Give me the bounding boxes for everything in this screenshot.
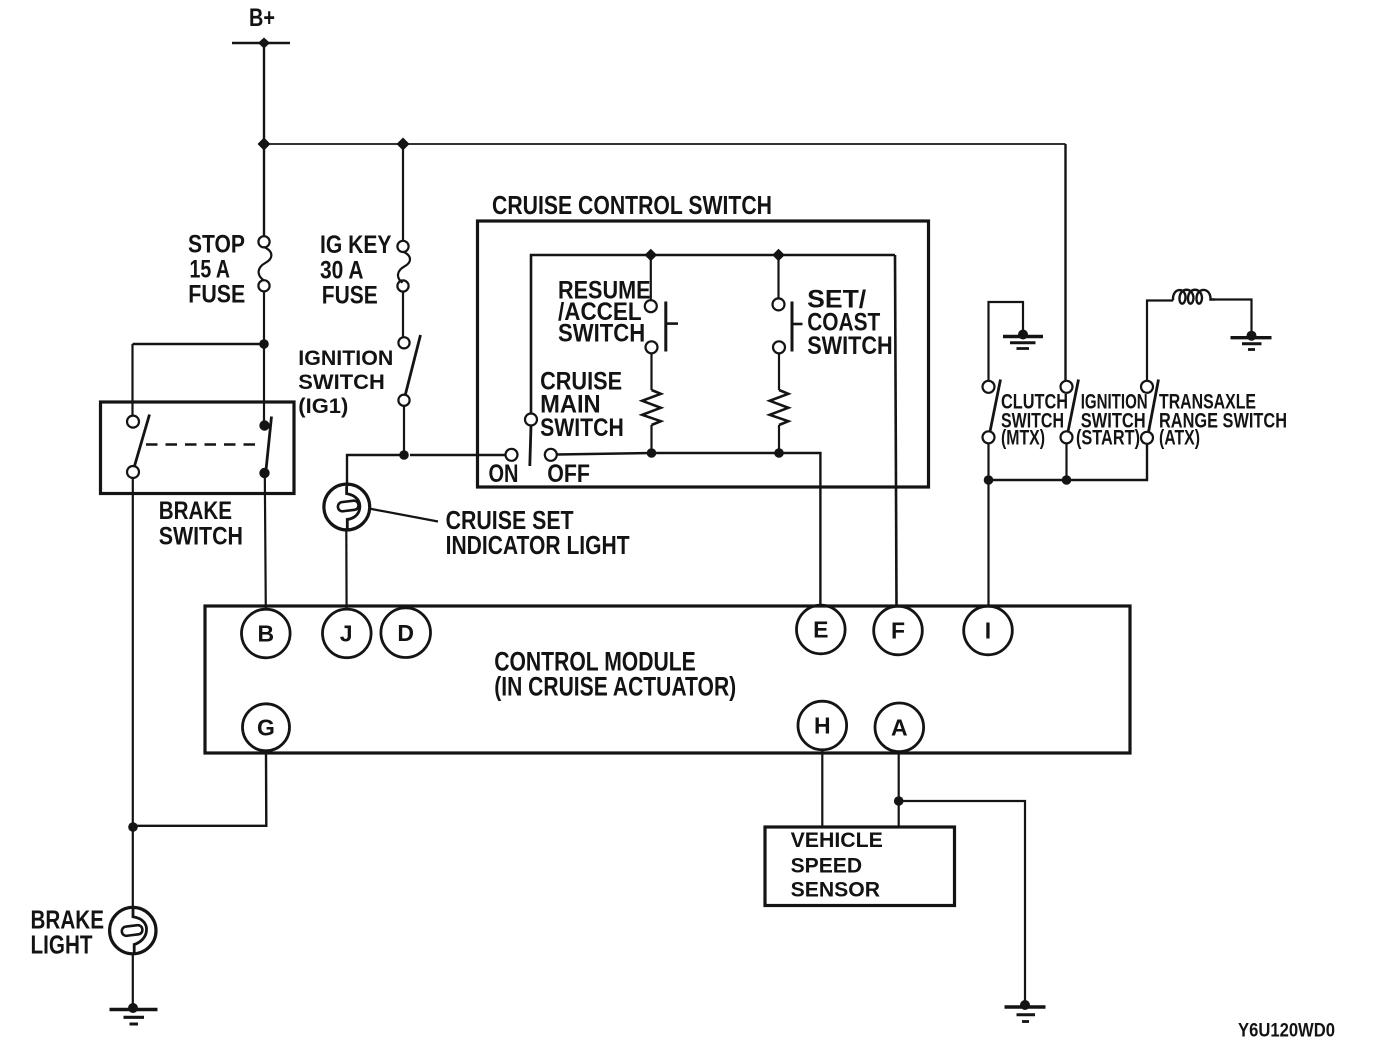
- leader line lamp to label: [369, 509, 438, 522]
- cruise main switch label: [540, 368, 624, 442]
- svg-text:E: E: [813, 617, 828, 643]
- wire pin A junction right and down to ground: [899, 801, 1025, 1004]
- svg-text:INDICATOR LIGHT: INDICATOR LIGHT: [446, 530, 630, 560]
- svg-text:ON: ON: [489, 460, 519, 488]
- node junction at (650.8,255): [645, 249, 658, 262]
- svg-text:H: H: [814, 713, 831, 739]
- vehicle speed sensor label: [791, 827, 883, 902]
- svg-text:IG KEY: IG KEY: [320, 232, 392, 259]
- svg-text:BRAKE: BRAKE: [159, 498, 232, 525]
- wire top bus down to ignition switch START: [1064, 144, 1066, 381]
- wire coil to ground: [1215, 300, 1252, 334]
- wire junction left to brake switch input: [133, 343, 265, 345]
- svg-text:15 A: 15 A: [190, 257, 231, 284]
- wire lamp to ground: [132, 954, 134, 1008]
- wire resistor to bottom rail: [778, 425, 780, 453]
- node junction at (403,144): [397, 138, 410, 151]
- pin B: [241, 609, 290, 658]
- svg-text:VEHICLE: VEHICLE: [791, 827, 883, 852]
- wire brake switch left bottom contact down to brake light node: [132, 478, 134, 827]
- svg-text:A: A: [891, 714, 908, 740]
- svg-text:SWITCH: SWITCH: [807, 332, 893, 360]
- transaxle range switch symbol: [1141, 380, 1159, 444]
- wire resistor to bottom rail: [650, 425, 652, 453]
- cruise control switch: inner frame top and left: [531, 255, 895, 414]
- node junction at (404,455): [399, 450, 409, 460]
- wire clutch switch bottom down: [987, 443, 989, 480]
- pin I: [964, 606, 1013, 655]
- brake switch box: [101, 402, 295, 494]
- wire transaxle switch up to coil: [1147, 301, 1173, 382]
- fuse IG KEY 30A: label: [320, 232, 392, 310]
- svg-text:(IG1): (IG1): [298, 394, 348, 418]
- node OFF contact: [545, 449, 557, 461]
- fuse STOP 15A: label: [188, 232, 245, 309]
- pin D: [381, 608, 431, 658]
- wire top horizontal bus y=144: [264, 143, 1066, 145]
- svg-text:B+: B+: [249, 4, 275, 32]
- control module label: [494, 647, 736, 702]
- brake switch left top contact: [127, 416, 139, 428]
- ground (clutch switch): [1003, 330, 1043, 349]
- svg-text:J: J: [340, 621, 353, 647]
- node junction at (779,453): [774, 448, 784, 458]
- ignition switch IG1: label: [298, 346, 393, 418]
- resume/accel switch symbol: [645, 255, 678, 353]
- wire OFF contact to bottom rail and down to pin E: [557, 453, 821, 606]
- svg-text:CRUISE CONTROL SWITCH: CRUISE CONTROL SWITCH: [492, 192, 772, 220]
- node junction at (264,144): [258, 138, 271, 151]
- wire rail down to pin I: [987, 480, 989, 606]
- resistor (set/coast): [770, 390, 789, 425]
- fuse STOP 15A: symbol: [258, 236, 271, 291]
- wire ignition START bottom down: [1065, 443, 1067, 480]
- node ON contact: [506, 449, 518, 461]
- wire IG1 junction to ON contact: [410, 454, 506, 456]
- brake switch label: [159, 498, 243, 551]
- control module box: [205, 606, 1130, 753]
- pin F: [874, 606, 923, 655]
- ignition switch IG1: symbol: [398, 335, 420, 406]
- svg-text:(START): (START): [1076, 427, 1140, 450]
- brake switch right top contact (closed): [259, 420, 269, 430]
- svg-text:SWITCH: SWITCH: [540, 414, 624, 442]
- wire clutch switch up to ground branch: [989, 302, 1024, 381]
- fuse IG KEY 30A: symbol: [397, 241, 410, 292]
- svg-text:LIGHT: LIGHT: [31, 929, 93, 959]
- cruise control switch: outer box: [478, 221, 929, 487]
- ignition switch START label: [1076, 390, 1148, 449]
- node junction at (1066.5,480): [1062, 475, 1072, 485]
- svg-text:30 A: 30 A: [320, 258, 364, 285]
- pin E: [797, 605, 846, 654]
- wire pin A down to speed sensor: [898, 752, 900, 827]
- svg-text:SPEED: SPEED: [791, 853, 863, 878]
- resistor (resume/accel): [642, 390, 661, 425]
- brake light label: [31, 904, 105, 959]
- svg-text:SWITCH: SWITCH: [558, 319, 645, 347]
- pin G: [243, 704, 290, 751]
- brake switch right blade: [266, 417, 272, 471]
- wire B+ down to main junction: [263, 43, 265, 237]
- svg-text:OFF: OFF: [547, 460, 590, 488]
- wire transaxle bottom down and left along rail: [989, 444, 1148, 480]
- svg-text:(IN CRUISE ACTUATOR): (IN CRUISE ACTUATOR): [494, 672, 736, 702]
- B+ terminal bar: [232, 38, 290, 49]
- svg-text:SENSOR: SENSOR: [791, 876, 881, 901]
- svg-text:SWITCH: SWITCH: [159, 524, 243, 551]
- pin A: [875, 703, 924, 752]
- cruise set indicator light label: [446, 505, 630, 560]
- set/coast switch label: [807, 286, 893, 360]
- wire down into brake switch left contact: [131, 344, 133, 416]
- pin H: [798, 701, 847, 750]
- wire through brake switch right side upper: [263, 344, 265, 426]
- svg-text:(MTX): (MTX): [1001, 427, 1045, 450]
- clutch switch (MTX) symbol: [983, 380, 1001, 444]
- svg-text:IGNITION: IGNITION: [298, 346, 393, 370]
- wire IG KEY fuse to ignition switch IG1: [402, 292, 404, 337]
- svg-text:(ATX): (ATX): [1159, 427, 1200, 450]
- cruise main switch pivot contact: [525, 414, 537, 426]
- svg-text:B: B: [257, 621, 274, 647]
- wire IG1 junction left then down to indicator lamp: [347, 455, 404, 487]
- vehicle speed sensor box: [765, 827, 955, 906]
- brake switch linkage dashed line: [146, 443, 262, 445]
- brake switch left blade: [135, 415, 150, 467]
- resume/accel switch label: [558, 277, 651, 348]
- node junction at (133,827): [128, 822, 138, 832]
- wire brake light node down to lamp: [132, 827, 134, 908]
- svg-text:FUSE: FUSE: [322, 282, 378, 309]
- brake switch right bottom contact (closed): [259, 468, 269, 478]
- node junction at (988.5,480): [984, 475, 994, 485]
- ground (vehicle speed sensor circuit): [1005, 1000, 1046, 1022]
- node B+ label: [249, 4, 275, 32]
- svg-text:FUSE: FUSE: [188, 282, 245, 309]
- wire brake switch right side down to pin B: [265, 473, 266, 610]
- wire set/coast switch to resistor: [778, 353, 780, 390]
- node junction at (898.7,801): [894, 796, 904, 806]
- svg-text:G: G: [257, 714, 275, 740]
- wire STOP fuse to brake-switch junction: [263, 291, 265, 344]
- clutch switch label: [1001, 390, 1068, 449]
- ground (transaxle coil): [1231, 331, 1272, 350]
- wire lamp down to pin J: [345, 530, 348, 611]
- node junction at (778.5,255): [772, 249, 785, 262]
- wire pin H down to speed sensor: [821, 750, 823, 827]
- svg-text:STOP: STOP: [188, 232, 245, 259]
- svg-text:F: F: [891, 618, 905, 644]
- wire bus down to IG KEY fuse: [402, 144, 404, 241]
- wire IG1 to node D junction: [403, 406, 405, 455]
- transaxle range switch label: [1159, 390, 1287, 449]
- svg-text:I: I: [985, 618, 991, 644]
- svg-text:D: D: [397, 620, 414, 646]
- inductor coil (transaxle range switch): [1173, 290, 1215, 304]
- ground (brake light): [110, 1003, 158, 1024]
- set/coast switch symbol: [773, 255, 803, 353]
- svg-text:SWITCH: SWITCH: [298, 370, 385, 394]
- node junction at (264,344): [259, 339, 269, 349]
- cruise main switch blade: [530, 426, 531, 467]
- cruise set indicator light lamp: [324, 484, 370, 530]
- svg-text:Y6U120WD0: Y6U120WD0: [1238, 1020, 1335, 1042]
- brake switch left bottom contact: [127, 466, 139, 478]
- wire resume switch to resistor: [650, 353, 652, 390]
- pin J: [323, 609, 372, 658]
- wire pin G down and left to brake light node: [133, 751, 266, 826]
- wire inner frame right edge down to pin F: [895, 255, 897, 606]
- brake light lamp: [110, 907, 156, 953]
- node junction at (651.5,453): [647, 448, 657, 458]
- ignition switch START symbol: [1061, 380, 1079, 444]
